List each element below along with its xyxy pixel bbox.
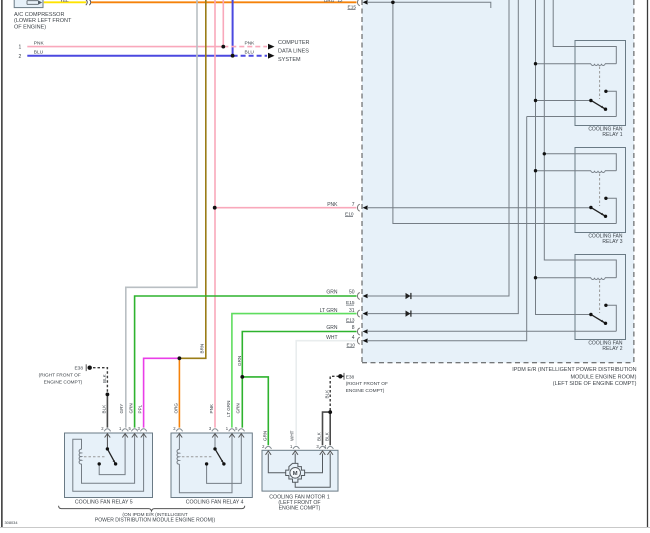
svg-text:PNK: PNK bbox=[245, 40, 256, 46]
svg-text:RELAY 1: RELAY 1 bbox=[602, 132, 622, 138]
svg-text:E38: E38 bbox=[346, 374, 355, 380]
svg-text:GRN: GRN bbox=[237, 356, 242, 366]
svg-text:GRN: GRN bbox=[129, 403, 134, 413]
svg-text:E38: E38 bbox=[74, 365, 83, 371]
svg-text:50: 50 bbox=[349, 290, 355, 296]
svg-text:2: 2 bbox=[262, 444, 265, 449]
svg-text:M: M bbox=[293, 471, 298, 477]
svg-text:308034: 308034 bbox=[5, 520, 19, 525]
svg-text:PNK: PNK bbox=[34, 40, 45, 46]
svg-text:31: 31 bbox=[349, 308, 355, 314]
svg-text:BRN: BRN bbox=[200, 344, 205, 354]
svg-text:4: 4 bbox=[352, 335, 355, 341]
svg-text:8: 8 bbox=[352, 325, 355, 331]
svg-text:ENGINE COMPT): ENGINE COMPT) bbox=[44, 379, 83, 385]
svg-text:5: 5 bbox=[235, 426, 238, 431]
svg-text:PNK: PNK bbox=[209, 403, 214, 413]
svg-text:MODULE ENGINE ROOM): MODULE ENGINE ROOM) bbox=[571, 374, 637, 380]
svg-text:RELAY 3: RELAY 3 bbox=[602, 239, 622, 245]
svg-text:DATA LINES: DATA LINES bbox=[278, 48, 309, 54]
svg-text:GRY: GRY bbox=[119, 404, 124, 414]
svg-text:PPL: PPL bbox=[138, 404, 143, 413]
svg-text:1: 1 bbox=[19, 44, 22, 50]
svg-text:OF ENGINE): OF ENGINE) bbox=[14, 24, 46, 30]
svg-text:BLK: BLK bbox=[102, 373, 107, 383]
svg-text:(RIGHT FRONT OF: (RIGHT FRONT OF bbox=[346, 381, 388, 387]
svg-text:BLK: BLK bbox=[102, 404, 107, 414]
svg-text:1: 1 bbox=[226, 426, 229, 431]
svg-text:BLK: BLK bbox=[325, 389, 330, 399]
svg-text:2: 2 bbox=[101, 426, 104, 431]
svg-text:(LOWER LEFT FRONT: (LOWER LEFT FRONT bbox=[14, 18, 72, 24]
svg-text:ORG: ORG bbox=[174, 403, 179, 414]
svg-text:ENGINE COMPT): ENGINE COMPT) bbox=[346, 388, 385, 394]
svg-text:(RIGHT FRONT OF: (RIGHT FRONT OF bbox=[39, 373, 81, 379]
svg-text:LT GRN: LT GRN bbox=[320, 308, 338, 314]
svg-text:ORG: ORG bbox=[324, 0, 335, 3]
svg-text:GRN: GRN bbox=[235, 403, 240, 413]
svg-text:BLU: BLU bbox=[245, 50, 255, 56]
svg-text:GRN: GRN bbox=[262, 431, 267, 441]
svg-text:COMPUTER: COMPUTER bbox=[278, 40, 310, 46]
svg-text:1: 1 bbox=[290, 444, 293, 449]
svg-text:IPDM E/R (INTELLIGENT POWER DI: IPDM E/R (INTELLIGENT POWER DISTRIBUTION bbox=[512, 367, 636, 373]
svg-text:GRN: GRN bbox=[326, 325, 338, 331]
svg-text:LT GRN: LT GRN bbox=[226, 401, 231, 417]
svg-text:BLU: BLU bbox=[34, 50, 44, 56]
svg-text:5: 5 bbox=[128, 426, 131, 431]
svg-text:COOLING FAN RELAY 4: COOLING FAN RELAY 4 bbox=[186, 499, 244, 505]
svg-text:2: 2 bbox=[19, 54, 22, 60]
svg-text:POWER DISTRIBUTION MODULE ENGI: POWER DISTRIBUTION MODULE ENGINE ROOM)) bbox=[95, 517, 216, 523]
svg-text:GRN: GRN bbox=[326, 290, 338, 296]
svg-text:1: 1 bbox=[119, 426, 122, 431]
svg-text:A/C COMPRESSOR: A/C COMPRESSOR bbox=[14, 12, 64, 18]
svg-text:RELAY 2: RELAY 2 bbox=[602, 346, 622, 352]
svg-text:BLK: BLK bbox=[317, 431, 322, 441]
svg-text:BLK: BLK bbox=[324, 431, 329, 441]
svg-text:2: 2 bbox=[173, 426, 176, 431]
svg-text:7: 7 bbox=[352, 202, 355, 208]
svg-text:12: 12 bbox=[338, 0, 344, 3]
svg-text:ENGINE COMPT): ENGINE COMPT) bbox=[279, 506, 321, 512]
svg-text:WHT: WHT bbox=[289, 430, 294, 441]
svg-text:PNK: PNK bbox=[327, 202, 338, 208]
svg-text:3: 3 bbox=[209, 426, 212, 431]
svg-text:YEL: YEL bbox=[60, 0, 69, 3]
svg-text:WHT: WHT bbox=[326, 335, 337, 341]
svg-text:COOLING FAN RELAY 5: COOLING FAN RELAY 5 bbox=[75, 499, 133, 505]
svg-text:SYSTEM: SYSTEM bbox=[278, 57, 301, 63]
svg-text:(LEFT SIDE OF ENGINE COMPT): (LEFT SIDE OF ENGINE COMPT) bbox=[553, 381, 637, 387]
svg-text:3: 3 bbox=[137, 426, 140, 431]
svg-text:3: 3 bbox=[316, 444, 319, 449]
